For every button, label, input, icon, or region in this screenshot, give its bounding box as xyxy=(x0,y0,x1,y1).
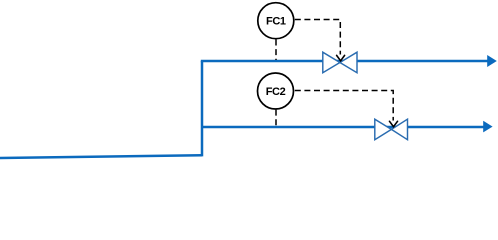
wire: feed line diagonal from bottom-left xyxy=(0,155,202,158)
svg-text:FC1: FC1 xyxy=(266,16,286,28)
wire: bottom pipe arrowhead xyxy=(483,121,492,133)
wire: FC2 signal line to pipe (dashed) xyxy=(275,110,277,126)
instrument FC1 (flow controller bubble) xyxy=(258,3,294,39)
wire: FC2 signal to valve V2 (dashed with corner) xyxy=(295,91,393,121)
instrument FC2 (flow controller bubble) xyxy=(258,73,294,109)
svg-text:FC2: FC2 xyxy=(266,86,286,98)
wire: arrowhead on FC2 signal at valve V2 xyxy=(390,121,398,126)
valve V1 (top control valve) xyxy=(323,52,357,72)
wire: vertical riser xyxy=(201,61,204,156)
valve V2 (bottom control valve) xyxy=(375,119,408,140)
wire: FC1 signal to valve V1 (dashed with corner) xyxy=(295,20,341,55)
wire: top pipe xyxy=(201,60,489,63)
wire: bottom pipe xyxy=(202,126,484,129)
wire: top pipe arrowhead xyxy=(487,55,497,67)
wire: FC1 signal line to pipe (dashed) xyxy=(275,40,277,61)
wire: arrowhead on FC1 signal at valve V1 xyxy=(337,55,345,60)
